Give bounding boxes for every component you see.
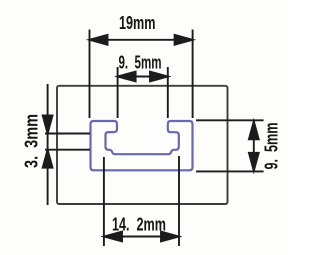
dimension 14.2mm left arrowhead [104, 232, 122, 242]
outer block rectangle [57, 86, 228, 204]
dimension 9.5mm top right extension line [167, 67, 169, 118]
dimension 9.5mm top dimension line [118, 76, 168, 78]
dimension 9.5mm right down arrowhead [249, 153, 259, 171]
dimension 14.2mm dimension line [104, 236, 179, 238]
dimension 3.3mm down arrowhead [43, 116, 53, 134]
dimension 19mm right extension line [192, 30, 194, 119]
dimension 14.2mm left extension line [103, 157, 105, 246]
svg-text:9. 5mm: 9. 5mm [119, 51, 162, 72]
dimension 3.3mm upper extension line [45, 133, 90, 135]
dimension 19mm left extension line [89, 30, 91, 119]
dimension 19mm dimension line [90, 39, 193, 41]
dimension 3.3mm lower extension line [45, 149, 90, 151]
dimension 9.5mm right up arrowhead [249, 121, 259, 139]
dimension 3.3mm up arrowhead [43, 150, 53, 168]
dimension 9.5mm top right arrowhead [150, 72, 168, 82]
T-slot track profile outline [91, 121, 193, 170]
svg-text:14. 2mm: 14. 2mm [112, 213, 166, 234]
dimension 9.5mm top left extension line [117, 67, 119, 118]
svg-text:3. 3mm: 3. 3mm [21, 114, 42, 168]
dimension 14.2mm right extension line [178, 156, 180, 246]
dimension 14.2mm right arrowhead [161, 232, 179, 242]
dimension 19mm right arrowhead [175, 35, 193, 45]
dimension 9.5mm right bottom extension line [196, 170, 264, 172]
dimension 3.3mm vertical dimension line [47, 84, 49, 205]
dimension 9.5mm top left arrowhead [118, 72, 136, 82]
svg-text:19mm: 19mm [119, 12, 156, 33]
svg-text:9. 5mm: 9. 5mm [261, 123, 282, 170]
dimension 9.5mm right top extension line [196, 119, 264, 121]
dimension 19mm left arrowhead [90, 35, 108, 45]
dimension 9.5mm right dimension line [253, 121, 255, 171]
